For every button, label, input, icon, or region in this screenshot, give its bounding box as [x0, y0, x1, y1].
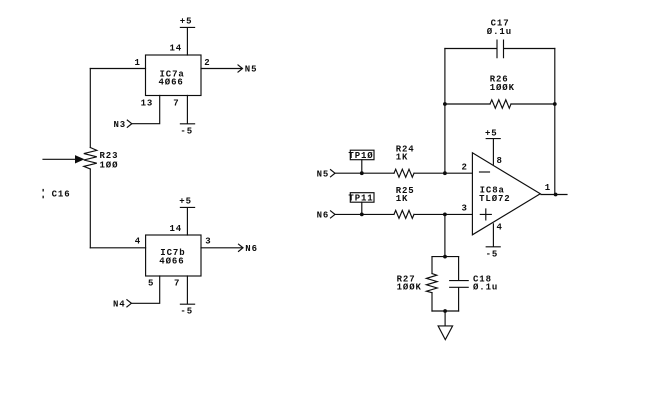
- op-amp IC8a: [472, 153, 540, 235]
- -5 power symbol (IC7b pin 7): [180, 276, 194, 304]
- svg-text:-5: -5: [486, 249, 499, 259]
- wire pin 3 IC7b output: [201, 247, 243, 249]
- capacitor C17: [445, 40, 555, 58]
- -5 power symbol (IC7a pin 7): [180, 96, 194, 124]
- resistor R26: [445, 103, 555, 105]
- pin 4 label: [135, 237, 141, 247]
- IC7a value label: [159, 69, 185, 87]
- node N3 input: [114, 120, 127, 130]
- svg-text:C16: C16: [52, 189, 71, 199]
- wire N5 to R24: [335, 172, 394, 174]
- junction (pin2/feedback): [443, 171, 447, 175]
- wire N6 to R25: [335, 213, 394, 215]
- wiper arrow into R23: [43, 158, 76, 160]
- svg-text:N5: N5: [317, 169, 330, 179]
- junction (N5/TP10): [360, 171, 364, 175]
- svg-text:1: 1: [135, 58, 141, 68]
- svg-text:TP1Ø: TP1Ø: [348, 151, 373, 161]
- -5 power symbol (op-amp pin 4): [486, 224, 500, 247]
- svg-text:1ØØK: 1ØØK: [490, 83, 515, 93]
- svg-text:N3: N3: [114, 120, 127, 130]
- svg-text:7: 7: [173, 98, 179, 108]
- svg-text:14: 14: [170, 224, 183, 234]
- potentiometer R23: [84, 148, 97, 170]
- svg-text:1K: 1K: [396, 194, 409, 204]
- testpoint TP10: [361, 160, 363, 174]
- wire pin1 IC7a to trunk: [90, 68, 145, 70]
- junction (RC top): [443, 255, 447, 259]
- svg-text:5: 5: [148, 279, 154, 289]
- pin 3 label: [462, 203, 468, 213]
- wire R25 to op-amp pin 3: [414, 213, 472, 215]
- svg-text:1ØØ: 1ØØ: [100, 160, 119, 170]
- svg-text:4: 4: [135, 237, 141, 247]
- svg-text:N6: N6: [245, 244, 258, 254]
- +5 power symbol (op-amp pin 8): [486, 139, 500, 165]
- svg-text:TLØ72: TLØ72: [479, 194, 511, 204]
- svg-text:Ø.1u: Ø.1u: [473, 283, 498, 293]
- svg-text:2: 2: [462, 162, 468, 172]
- svg-text:R23: R23: [100, 151, 119, 161]
- svg-text:1K: 1K: [396, 152, 409, 162]
- svg-text:2: 2: [204, 58, 210, 68]
- junction (pin3/RC): [443, 213, 447, 217]
- IC7b value label: [159, 248, 185, 266]
- wire to ground: [444, 311, 446, 326]
- svg-text:+5: +5: [179, 196, 192, 206]
- RC pair bottom rail: [432, 310, 459, 312]
- junction (output/feedback): [554, 193, 558, 197]
- svg-text:3: 3: [205, 237, 211, 247]
- inverting input minus sign: [480, 171, 490, 173]
- node N4 input: [113, 299, 126, 309]
- wire pin 3 to RC pair: [444, 214, 446, 256]
- node N6 output arrow: [239, 244, 244, 251]
- wire trunk upper: [89, 69, 91, 148]
- wire N4 to pin 5: [131, 276, 159, 303]
- wire N3 to pin 13: [132, 96, 160, 124]
- svg-text:N6: N6: [317, 211, 330, 221]
- pin 2 label: [462, 162, 468, 172]
- non-inverting input plus sign: [480, 209, 491, 220]
- svg-text:N4: N4: [113, 299, 126, 309]
- pin 13 label: [141, 98, 154, 108]
- feedback right rail: [554, 49, 556, 195]
- svg-text:-5: -5: [180, 126, 193, 136]
- svg-text:13: 13: [141, 98, 154, 108]
- junction (R26 right): [553, 102, 557, 106]
- wire pin 4 IC7b: [90, 247, 145, 249]
- testpoint TP11: [361, 202, 363, 214]
- pin 5 label: [148, 279, 154, 289]
- svg-text:4Ø66: 4Ø66: [159, 256, 184, 266]
- analog switch IC7b: [146, 235, 201, 276]
- svg-text:N5: N5: [245, 65, 258, 75]
- svg-text:-5: -5: [180, 306, 193, 316]
- pin 7 label: [173, 98, 179, 108]
- svg-text:3: 3: [462, 203, 468, 213]
- svg-text:4Ø66: 4Ø66: [159, 78, 184, 88]
- +5 power symbol (IC7a pin 14): [180, 27, 194, 55]
- svg-text:8: 8: [497, 156, 503, 166]
- analog switch IC7a: [146, 55, 202, 96]
- pin 2 label: [204, 58, 210, 68]
- pin 1 label: [545, 183, 551, 193]
- node N6 input (right): [317, 211, 330, 221]
- feedback left rail: [444, 49, 446, 174]
- svg-text:4: 4: [497, 223, 503, 233]
- svg-text:TP11: TP11: [348, 194, 373, 204]
- pin 4 label: [497, 223, 503, 233]
- node N5 output arrow: [238, 65, 243, 72]
- resistor R27: [431, 257, 433, 311]
- capacitor C18: [450, 257, 469, 311]
- wire trunk lower: [89, 169, 91, 248]
- pin 14 label: [170, 44, 183, 54]
- wire R24 to op-amp pin 2: [414, 172, 472, 174]
- svg-text:Ø.1u: Ø.1u: [487, 27, 512, 37]
- pin 3 label: [205, 237, 211, 247]
- pin 8 label: [497, 156, 503, 166]
- pin 1 label: [135, 58, 141, 68]
- RC pair top rail: [432, 256, 459, 258]
- pin 14 label: [170, 224, 183, 234]
- svg-text:7: 7: [174, 279, 180, 289]
- capacitor C16 label (clipped at edge): [43, 189, 44, 198]
- wire pin 2 IC7a output: [201, 68, 242, 70]
- junction (N6/TP11): [360, 213, 364, 217]
- svg-text:+5: +5: [180, 16, 193, 26]
- node N5 input (right): [317, 169, 330, 179]
- svg-text:+5: +5: [485, 129, 498, 139]
- pin 7 label: [174, 279, 180, 289]
- svg-text:14: 14: [170, 44, 183, 54]
- resistor R24: [394, 169, 414, 177]
- ground: [438, 326, 453, 340]
- junction (R26 left): [443, 102, 447, 106]
- junction (RC bottom): [443, 309, 447, 313]
- +5 power symbol (IC7b pin 14): [180, 207, 194, 235]
- svg-text:1: 1: [545, 183, 551, 193]
- resistor R25: [394, 210, 414, 218]
- output wire pin 1: [541, 194, 567, 196]
- svg-text:1ØØK: 1ØØK: [397, 283, 422, 293]
